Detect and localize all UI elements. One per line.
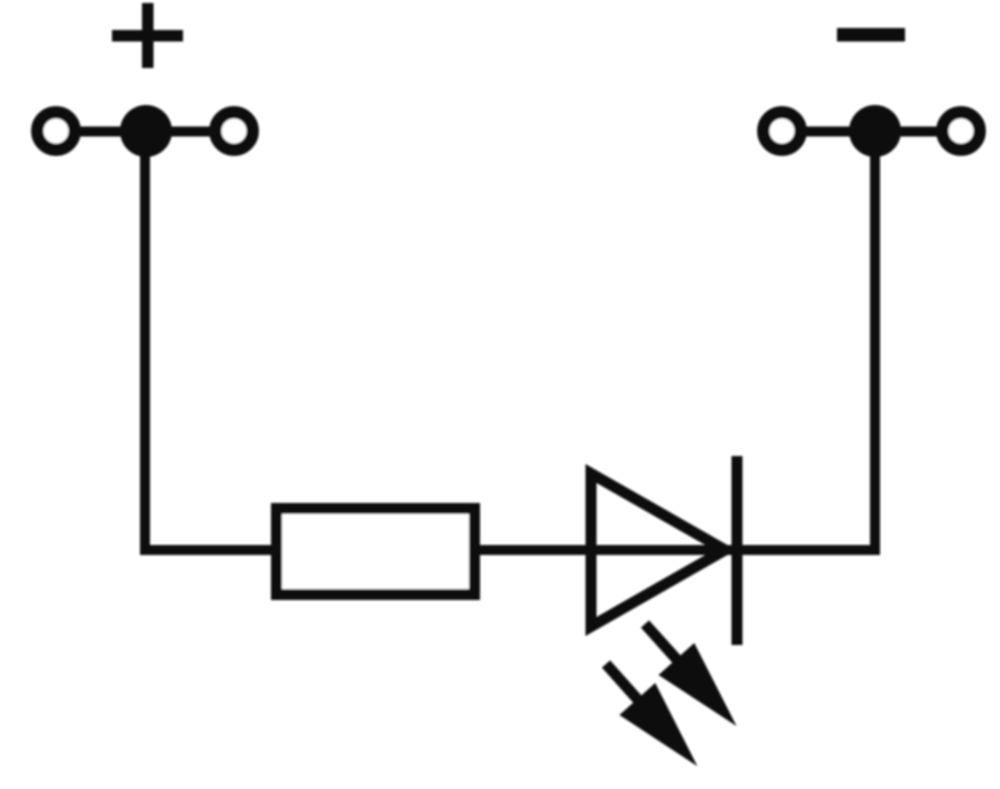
wire: left terminal horizontal bar: [56, 127, 234, 137]
node: − feed-through junction (filled dot): [849, 105, 901, 157]
node: + feed-through junction (filled dot): [120, 105, 172, 157]
wire: right vertical drop from − junction: [870, 131, 880, 555]
LED emission arrow (upper): [627, 608, 754, 742]
wire: left vertical drop from + junction: [140, 131, 150, 555]
terminal: right clamp point (open circle, left): [763, 112, 800, 149]
terminal: left clamp point (open circle, left): [37, 112, 74, 149]
plus label (+): [112, 3, 183, 68]
wire: bottom horizontal run (resistor/LED branch): [140, 545, 875, 555]
LED D anode triangle: [591, 474, 725, 627]
LED emission arrow (lower): [588, 648, 715, 782]
LED D cathode bar: [732, 456, 743, 645]
terminal: right clamp point (open circle, right): [942, 112, 979, 149]
minus label (−): [837, 28, 905, 42]
terminal: left clamp point (open circle, right): [215, 112, 252, 149]
wire: right terminal horizontal bar: [782, 127, 961, 137]
resistor R (series resistor box): [277, 509, 475, 595]
